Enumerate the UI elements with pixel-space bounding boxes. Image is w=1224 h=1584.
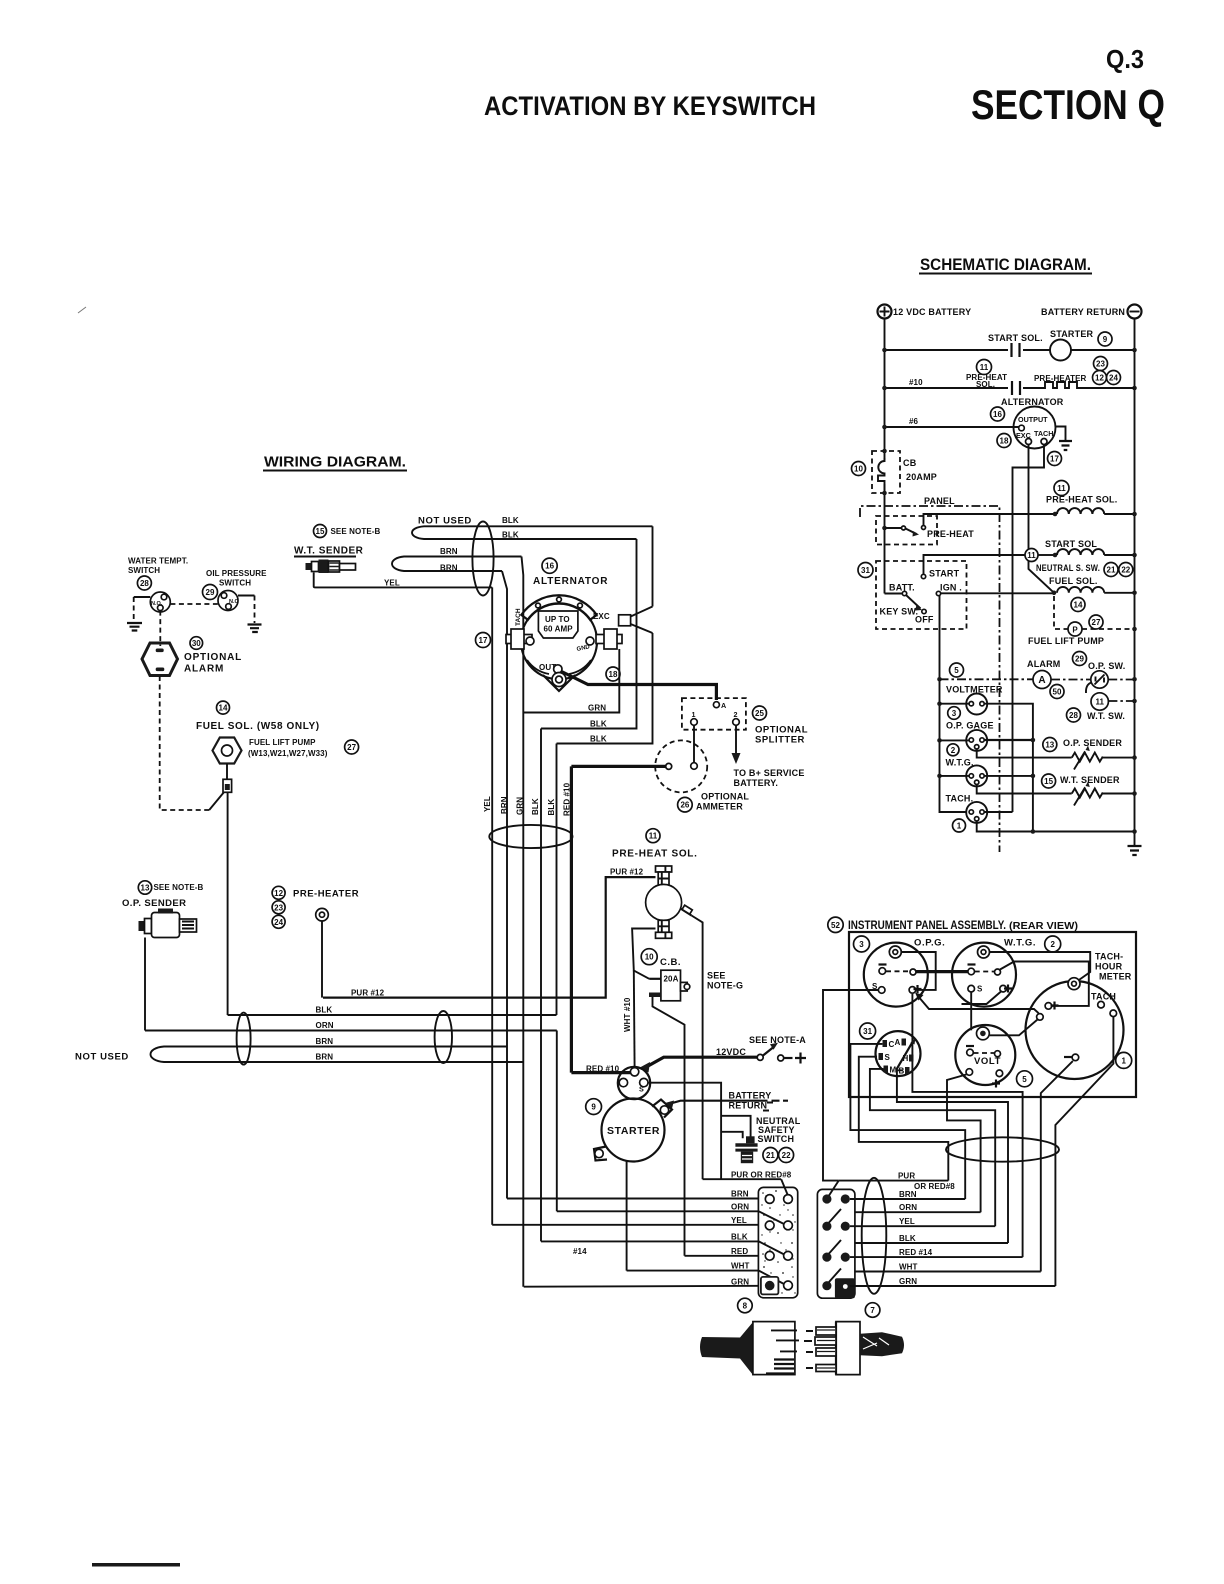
svg-text:UP TO: UP TO [545, 615, 570, 624]
svg-text:ACTIVATION BY KEYSWITCH: ACTIVATION BY KEYSWITCH [484, 91, 816, 121]
svg-text:KEY SW.: KEY SW. [880, 607, 919, 617]
ref circle 11 pre-heat sol [646, 829, 660, 843]
svg-text:NOT USED: NOT USED [75, 1052, 129, 1063]
ref circle 9 starter [586, 1099, 602, 1115]
riser RED [912, 994, 1022, 1257]
svg-text:N.C: N.C [229, 599, 239, 605]
tach minus terminal [1072, 1054, 1079, 1061]
svg-text:O.P. SENDER: O.P. SENDER [122, 898, 186, 909]
svg-text:23: 23 [1096, 360, 1105, 369]
svg-text:YEL: YEL [384, 579, 400, 588]
panel harness bundle ellipse [946, 1137, 1059, 1161]
ref circle 29 [203, 585, 218, 600]
ref circle 18 [606, 667, 620, 681]
ref circle 3 [948, 707, 961, 720]
starter solenoid [618, 1067, 650, 1099]
svg-text:TACH: TACH [1091, 992, 1116, 1002]
ref circle 21 [763, 1148, 778, 1163]
node WT sw right rail [1132, 699, 1137, 704]
wire WTG pivot to tach-hour plus [1000, 962, 1089, 1006]
svg-text:#14: #14 [573, 1247, 587, 1256]
ref circle 13 [1043, 738, 1057, 752]
WT switch circle 11 [1091, 693, 1108, 710]
OPG plus terminal [909, 987, 916, 994]
wire YEL row to connector 8 [492, 1224, 765, 1226]
heavy wire ammeter to RED10 column [571, 765, 665, 768]
node start sol right rail [1132, 553, 1137, 558]
svg-text:BLK: BLK [590, 720, 607, 729]
WTG S terminal [968, 985, 975, 992]
svg-text:BLK: BLK [547, 799, 556, 816]
svg-text:VOLT: VOLT [974, 1056, 1001, 1067]
BLK wire from hairpin down to EXC [652, 526, 654, 606]
ref circle 10 CB [641, 949, 657, 965]
harness ellipse left small [237, 1013, 251, 1065]
fuel sol valve body [223, 779, 232, 792]
neutral safety switch body [746, 1136, 755, 1143]
circuit breaker body [661, 970, 681, 1001]
svg-text:31: 31 [863, 1027, 872, 1036]
svg-text:BLK: BLK [502, 516, 519, 525]
svg-text:60 AMP: 60 AMP [544, 625, 574, 634]
svg-text:O.P.G.: O.P.G. [914, 938, 945, 949]
svg-text:1: 1 [1121, 1056, 1126, 1065]
svg-text:5: 5 [1022, 1075, 1027, 1084]
OP sender resistor [1072, 753, 1103, 762]
PUR/RED8 wire diagonal into connector 8 [703, 1178, 782, 1180]
ORN long wire [145, 1030, 557, 1032]
svg-text:NOT USED: NOT USED [418, 516, 472, 527]
left supply rail [884, 319, 886, 594]
svg-text:RED #14: RED #14 [899, 1248, 933, 1257]
svg-text:START SOL.: START SOL. [988, 333, 1043, 343]
svg-text:OFF: OFF [915, 615, 934, 625]
BRN column [502, 571, 507, 1199]
panel boundary dash-dot [860, 506, 1000, 852]
CB element [878, 458, 885, 493]
starter motor body [602, 1099, 665, 1162]
harness bundle ellipse mid [489, 825, 572, 848]
battery return terminal [1128, 305, 1142, 319]
svg-text:SEE NOTE-B: SEE NOTE-B [154, 883, 204, 892]
CB lower wire to RED14 [653, 997, 685, 1256]
wire TACH to tach gauge [1013, 445, 1045, 813]
YEL column [491, 587, 493, 1224]
svg-text:S: S [639, 1085, 644, 1094]
svg-text:ALARM: ALARM [1027, 659, 1061, 669]
wire WT gauge to ground bus [984, 775, 1033, 777]
BLK wire EXC to panel [557, 633, 653, 744]
svg-text:PUR OR RED#8: PUR OR RED#8 [731, 1171, 792, 1180]
node WT on ground bus [1031, 774, 1036, 779]
volt minus terminal [967, 1049, 974, 1056]
harness ellipse top [472, 522, 493, 596]
svg-text:SEE NOTE-B: SEE NOTE-B [331, 527, 381, 536]
wire PUR to panel [839, 1180, 949, 1182]
tach plus terminal [1045, 1003, 1052, 1010]
wire rail to voltmeter [940, 703, 970, 705]
svg-text:3: 3 [952, 709, 957, 718]
wire OPG plus to tach aux with arrow [918, 996, 1039, 1014]
connector 7 body [817, 1189, 855, 1298]
svg-text:(REAR VIEW): (REAR VIEW) [1009, 920, 1078, 932]
wire splitter 2 to service battery arrow [735, 725, 737, 753]
underline [263, 470, 407, 472]
battery positive terminal [878, 305, 892, 319]
ref circle 50 [1050, 685, 1064, 699]
optional ammeter dashed circle [655, 740, 707, 792]
riser BLK [897, 1070, 1008, 1243]
svg-text:N.O.: N.O. [151, 601, 163, 607]
BLK long wire [228, 1014, 557, 1016]
key switch BATT contact [885, 593, 903, 595]
svg-text:31: 31 [861, 566, 870, 575]
ref circle 30 [190, 637, 203, 650]
key switch IGN contact [936, 591, 940, 595]
svg-text:11: 11 [980, 363, 989, 372]
ref circle 21 [1104, 563, 1118, 577]
alternator left terminal TACH [506, 635, 532, 644]
alternator TACH pin [1041, 439, 1047, 445]
svg-text:PUR #12: PUR #12 [351, 989, 385, 998]
WTG pivot [995, 969, 1001, 975]
volt lower-left terminal [966, 1069, 973, 1076]
wire pre-heater down to PUR12 run [321, 921, 323, 998]
dashed link minus to pivot [886, 970, 910, 972]
wire preheat switch to pre-heat sol [924, 514, 1054, 526]
tach gauge [966, 802, 987, 823]
svg-text:RED #10: RED #10 [563, 782, 572, 816]
connector 8 white pocket [761, 1277, 779, 1295]
svg-text:W.T.G.: W.T.G. [946, 758, 974, 768]
WT sender arrow [1074, 788, 1085, 806]
wire PUR12 from solenoid [323, 877, 656, 998]
right connector teeth [816, 1327, 836, 1335]
ref circle 23 [1094, 357, 1108, 371]
svg-text:16: 16 [545, 562, 554, 571]
svg-text:S: S [977, 985, 983, 994]
ref circle 5 [1017, 1071, 1033, 1087]
node ground bus right rail [1132, 829, 1137, 834]
svg-text:BLK: BLK [502, 531, 519, 540]
svg-text:14: 14 [219, 704, 228, 713]
node alarm row right rail [1132, 677, 1137, 682]
connector 7 pin diagonals [829, 1181, 841, 1282]
node left rail preheat row [882, 386, 887, 391]
OPG minus terminal [879, 968, 886, 975]
connector 8 pins left column [765, 1195, 774, 1204]
svg-text:13: 13 [141, 884, 150, 893]
wire OPG stud loop [902, 952, 936, 990]
wire rail to WT gauge [940, 775, 970, 777]
svg-text:12: 12 [274, 889, 283, 898]
OP gauge [966, 730, 987, 751]
volt pivot [995, 1051, 1001, 1057]
svg-text:FUEL SOL.: FUEL SOL. [1049, 576, 1098, 586]
svg-text:3: 3 [859, 940, 864, 949]
alternator body [521, 603, 597, 679]
svg-text:24: 24 [1109, 374, 1118, 383]
svg-text:YEL: YEL [731, 1216, 747, 1225]
branch to NSS center [721, 1116, 751, 1138]
svg-text:12 VDC BATTERY: 12 VDC BATTERY [893, 307, 971, 317]
ref circle 51 [858, 563, 873, 578]
ref circle 9 [1098, 332, 1112, 346]
key switch body [876, 1031, 921, 1076]
svg-text:ORN: ORN [731, 1202, 749, 1211]
svg-text:NOTE-G: NOTE-G [707, 981, 743, 991]
plus sign [795, 1053, 806, 1064]
start sol coil [1057, 549, 1104, 555]
pre-heat solenoid body [656, 866, 672, 872]
tach aux terminal [1110, 1010, 1117, 1017]
svg-text:PRE-HEAT SOL.: PRE-HEAT SOL. [1046, 495, 1117, 505]
node pre-heat sol right rail [1132, 512, 1137, 517]
ref circle 27 [345, 740, 359, 754]
key switch START contact [921, 574, 925, 578]
right return rail [1134, 319, 1136, 847]
svg-text:28: 28 [140, 579, 149, 588]
dash-dot WT sw to rail [1108, 700, 1134, 702]
wire side terminal PUR/RED8 down [692, 916, 703, 1180]
volt gauge body [955, 1025, 1015, 1085]
optional alarm hexagon [142, 643, 178, 676]
svg-text:S: S [885, 1053, 891, 1062]
ref circle 17 [1048, 452, 1062, 466]
node ground bus mid [1031, 829, 1036, 834]
svg-text:27: 27 [1092, 618, 1101, 627]
svg-text:YEL: YEL [483, 796, 492, 812]
WTG plus terminal [1000, 985, 1007, 992]
ref circle 10 [852, 462, 866, 476]
thick wire OPG to WTG [916, 970, 968, 973]
svg-text:BLK: BLK [531, 798, 540, 815]
wire tach sub to volt stud [990, 1020, 1038, 1036]
svg-text:7: 7 [870, 1306, 875, 1315]
ref circle 26 [678, 797, 693, 812]
svg-text:YEL: YEL [899, 1217, 915, 1226]
svg-text:BRN: BRN [899, 1190, 917, 1199]
pre-heater resistor [1041, 382, 1080, 388]
ref circle 14 [1071, 598, 1085, 612]
ref circle 14 [217, 701, 230, 714]
OPG top stud [889, 946, 901, 958]
heavy OUT wire to splitter [562, 672, 717, 701]
key switch terminals [883, 1040, 888, 1047]
wire to start sol coil [1038, 554, 1053, 556]
svg-text:22: 22 [1121, 566, 1130, 575]
svg-text:8: 8 [743, 1302, 748, 1311]
svg-text:START: START [929, 569, 960, 579]
wire preheat sol bottom to CB [632, 929, 655, 979]
svg-text:W.T. SENDER: W.T. SENDER [1060, 775, 1120, 785]
svg-text:50: 50 [1053, 688, 1062, 697]
svg-text:FUEL LIFT PUMP: FUEL LIFT PUMP [1028, 636, 1104, 646]
wire WTG S down [970, 992, 972, 1030]
ref circle 52 [828, 917, 843, 932]
svg-text:C.B.: C.B. [660, 957, 681, 968]
wire EXC jog lower [631, 624, 653, 633]
svg-text:SEE NOTE-A: SEE NOTE-A [749, 1035, 806, 1045]
pre-heat sol side terminal [681, 909, 692, 916]
svg-text:TACH-: TACH- [1095, 952, 1123, 962]
node left rail starter row [882, 348, 887, 353]
dashed wire alarm to fuel sol valve [160, 676, 210, 810]
ref circle 27 [1089, 615, 1103, 629]
ground symbol WT switch [127, 623, 142, 631]
wire fuel sol down [226, 764, 228, 780]
fuel lift pump P [1068, 622, 1082, 636]
OP switch [1091, 671, 1108, 688]
svg-text:PANEL: PANEL [924, 496, 955, 506]
svg-text:WHT: WHT [731, 1262, 750, 1271]
svg-text:SEE: SEE [707, 971, 726, 981]
wire WHT to riser [855, 1271, 1041, 1273]
svg-text:HOUR: HOUR [1095, 962, 1123, 972]
pre-heater plug [316, 908, 329, 921]
svg-text:O.P. SW.: O.P. SW. [1088, 661, 1125, 671]
ref circle 3 [854, 936, 870, 952]
svg-text:#10: #10 [909, 378, 923, 387]
node pre-heat sol left [1053, 512, 1058, 517]
dash-dot OP switch to rail [1108, 679, 1134, 681]
wire start contact to start sol [924, 555, 1026, 574]
svg-text:23: 23 [274, 903, 283, 912]
svg-text:21: 21 [766, 1151, 775, 1160]
pre-heater refs 12 23 24 [272, 886, 285, 899]
ref circle 12 [1093, 371, 1107, 385]
svg-text:W.T.G.: W.T.G. [1004, 938, 1036, 949]
12VDC switch contact [757, 1054, 763, 1060]
physical connector right body [836, 1322, 860, 1375]
node OP gauge rail [937, 738, 942, 743]
svg-text:27: 27 [347, 743, 356, 752]
CB left tab [649, 978, 661, 980]
stray mark bottom left [92, 1563, 180, 1567]
key switch dashed box [876, 561, 967, 629]
wire EXC jog upper [631, 607, 653, 617]
ref circle 29 [1073, 652, 1087, 666]
wire WHT row to connector 8 [627, 1270, 759, 1272]
connector 8 stipple [761, 1190, 795, 1294]
svg-text:O.P. SENDER: O.P. SENDER [1063, 738, 1122, 748]
wire BRN to riser [850, 1198, 965, 1200]
ref circle 2 [1045, 936, 1061, 952]
CB right tab [681, 982, 688, 991]
starter lower left lug [594, 1147, 607, 1161]
node on ground bus [1031, 738, 1036, 743]
node WT gauge rail [937, 774, 942, 779]
svg-text:21: 21 [1107, 566, 1116, 575]
node right rail preheat row [1132, 386, 1137, 391]
svg-text:5: 5 [954, 666, 959, 675]
svg-text:11: 11 [649, 832, 658, 841]
svg-text:BLK: BLK [316, 1006, 333, 1015]
svg-text:A: A [895, 1038, 901, 1047]
WT sender resistor [1072, 789, 1103, 798]
wire fuel sol BLK column [227, 792, 229, 1015]
svg-text:WATER TEMPT.: WATER TEMPT. [128, 557, 188, 566]
svg-text:BLK: BLK [899, 1234, 916, 1243]
svg-text:ALTERNATOR: ALTERNATOR [1001, 397, 1064, 407]
connector 7 black pocket [835, 1278, 855, 1298]
stray speck top left [78, 307, 86, 313]
svg-text:BRN: BRN [440, 564, 458, 573]
svg-text:EXC: EXC [593, 612, 610, 621]
connector 8 internal diagonals [759, 1179, 788, 1284]
ref circle 11 [977, 360, 992, 375]
svg-text:BLK: BLK [731, 1232, 748, 1241]
WT gauge [966, 765, 987, 786]
ref circle 22 [779, 1148, 794, 1163]
svg-text:17: 17 [1050, 455, 1059, 464]
node voltmeter rail [937, 701, 942, 706]
instrument panel box [849, 932, 1136, 1097]
svg-text:18: 18 [609, 670, 618, 679]
riser ORN [947, 1075, 981, 1213]
svg-text:2: 2 [951, 746, 956, 755]
pre-heat sol coil [1057, 508, 1104, 514]
ref circle 15 [1042, 774, 1056, 788]
right connector pin dashes [804, 1331, 813, 1368]
svg-text:WIRING DIAGRAM.: WIRING DIAGRAM. [264, 454, 406, 471]
underline [919, 273, 1092, 275]
heavy 12VDC wire [647, 1057, 758, 1067]
pre-heat switch [885, 527, 902, 529]
svg-text:BRN: BRN [316, 1037, 334, 1046]
svg-text:10: 10 [854, 465, 863, 474]
fuel solenoid hexagon [213, 738, 242, 764]
alternator bottom lug [543, 675, 575, 691]
svg-text:9: 9 [591, 1103, 596, 1112]
svg-text:52: 52 [831, 921, 840, 930]
dashed wire WT switch to alarm [159, 611, 161, 646]
battery return wire with arrow [671, 1101, 768, 1104]
dashed link WTG minus to pivot [975, 971, 995, 973]
wire OP sw to WT sw [1086, 683, 1092, 694]
OPG pivot [910, 969, 916, 975]
wire WT sender YEL [314, 573, 493, 588]
ref circle 24 [1107, 371, 1121, 385]
wire voltmeter to ground bus [984, 704, 1033, 832]
start sol inline ref circle 11 [1025, 549, 1038, 562]
svg-text:M: M [890, 1066, 897, 1075]
dash-dot alarm to OP switch [1051, 679, 1091, 681]
wire BLK to riser [855, 1242, 1008, 1244]
wire tach right pin to alternator tach line [984, 811, 1012, 813]
alternator OUTPUT pin [1019, 425, 1025, 431]
svg-text:29: 29 [1075, 655, 1084, 664]
svg-text:PRE-HEATER: PRE-HEATER [293, 889, 359, 900]
ref circle 18 [997, 434, 1011, 448]
svg-text:BRN: BRN [500, 796, 509, 814]
WTG minus terminal [968, 968, 975, 975]
ref circle 5 [950, 663, 964, 677]
ORN column lower [556, 1031, 558, 1212]
svg-text:OIL PRESSURE: OIL PRESSURE [206, 569, 267, 578]
WTG top stud [978, 946, 990, 958]
heavy RED10 wire to solenoid [571, 1071, 630, 1074]
svg-text:TACH: TACH [1034, 429, 1053, 438]
harness ellipse mid small [435, 1011, 452, 1063]
tach hour meter body [1026, 981, 1124, 1079]
svg-text:SCHEMATIC DIAGRAM.: SCHEMATIC DIAGRAM. [920, 255, 1091, 274]
physical connector right cable [860, 1332, 904, 1356]
svg-text:SPLITTER: SPLITTER [755, 735, 805, 746]
12VDC switch second contact [778, 1055, 784, 1061]
wire WT switch to ground [134, 596, 151, 598]
alarm device A [1033, 671, 1051, 689]
